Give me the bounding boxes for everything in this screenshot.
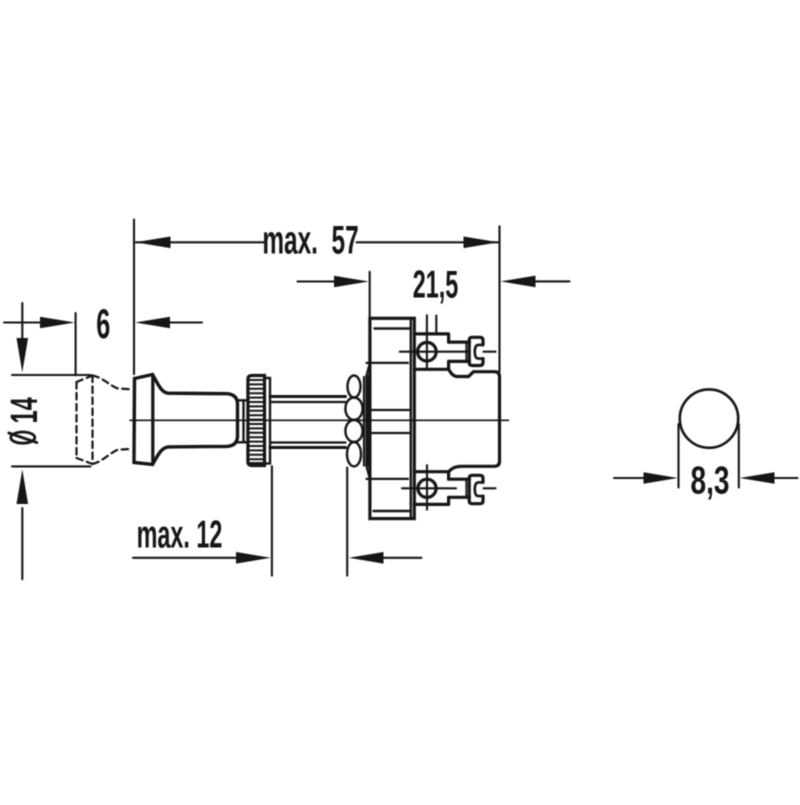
dimension dia 14 top arrow [21, 303, 23, 341]
washer side lines [364, 376, 368, 466]
nut washer band [265, 378, 271, 464]
top terminal screw circle [418, 342, 437, 361]
dimension 21,5 left arrow [298, 280, 337, 282]
flange boss left edge [367, 363, 370, 479]
flange boss top line [367, 362, 409, 364]
flange hole lines [368, 410, 410, 433]
plunger rod lines [270, 402, 346, 443]
svg-text:8,3: 8,3 [690, 459, 729, 503]
dimension max. 57 extension line right / body edge upper [498, 226, 500, 371]
flange inner bottom line [374, 510, 411, 512]
dimension max. 57 line [136, 241, 498, 243]
svg-text:6: 6 [96, 302, 110, 348]
dimension max. 12 left arrow [133, 557, 237, 559]
dimension max. 57 arrowhead right [464, 237, 499, 249]
top terminal block [414, 334, 448, 369]
svg-text:21,5: 21,5 [413, 262, 459, 306]
bottom terminal block [414, 472, 448, 505]
dimension 6 left arrow [4, 321, 42, 323]
flange inner right edge [410, 318, 412, 518]
dimension 8,3 right arrow [774, 477, 798, 479]
dimension dia 14 extension lines [12, 375, 91, 466]
flange inner top line [375, 327, 412, 329]
knob rear face line [151, 375, 154, 464]
bottom screw head [469, 475, 483, 503]
dimension 8,3 left arrow [614, 477, 645, 479]
dimension 6 right arrow [168, 321, 202, 323]
svg-text:14: 14 [2, 397, 45, 424]
mounting hole circle [680, 389, 738, 447]
svg-text:max. 12: max. 12 [137, 512, 223, 556]
threaded bushing outer lines [270, 397, 346, 448]
dimension max. 12 right arrow [382, 557, 421, 559]
bottom terminal screw shank [465, 479, 467, 497]
wavy lock washer egg 1 [348, 376, 361, 398]
bottom screw cross lines [402, 465, 456, 509]
body outline [449, 369, 500, 471]
top terminal screw shank [465, 342, 467, 361]
dimension max. 12 extension lines [272, 466, 347, 575]
knob stem [238, 400, 249, 442]
knurled nut outline [248, 376, 265, 466]
dimension 21,5 extension line [369, 272, 371, 319]
wavy lock washer egg 3 [345, 420, 362, 442]
dimension 21,5 right arrow [534, 280, 570, 282]
top screw cross lines [400, 315, 468, 369]
bottom screw axis stub [484, 487, 496, 489]
top screw slot [475, 345, 483, 359]
mounting hole tangent lines [679, 424, 739, 488]
top screw axis stub [484, 351, 496, 353]
svg-text:max. 57: max. 57 [262, 218, 358, 263]
knob outline [134, 375, 238, 465]
phantom knob pulled position (dashed) [77, 376, 133, 465]
top screw head [469, 337, 483, 365]
bottom screw slot [475, 482, 483, 496]
dimension max. 57 arrowhead left [135, 237, 170, 249]
dimension dia 14 bottom arrow [21, 508, 23, 579]
mounting flange plate [370, 318, 414, 518]
center line [130, 419, 509, 421]
flange boss bottom line [367, 478, 409, 480]
wavy lock washer egg 2 [345, 398, 362, 420]
knurl hatch [249, 380, 265, 463]
wavy lock washer egg 4 [347, 442, 361, 466]
dimension 6 extension line left [75, 313, 77, 375]
bottom terminal screw circle [418, 479, 436, 497]
dimension max. 57 extension line left [133, 220, 135, 375]
